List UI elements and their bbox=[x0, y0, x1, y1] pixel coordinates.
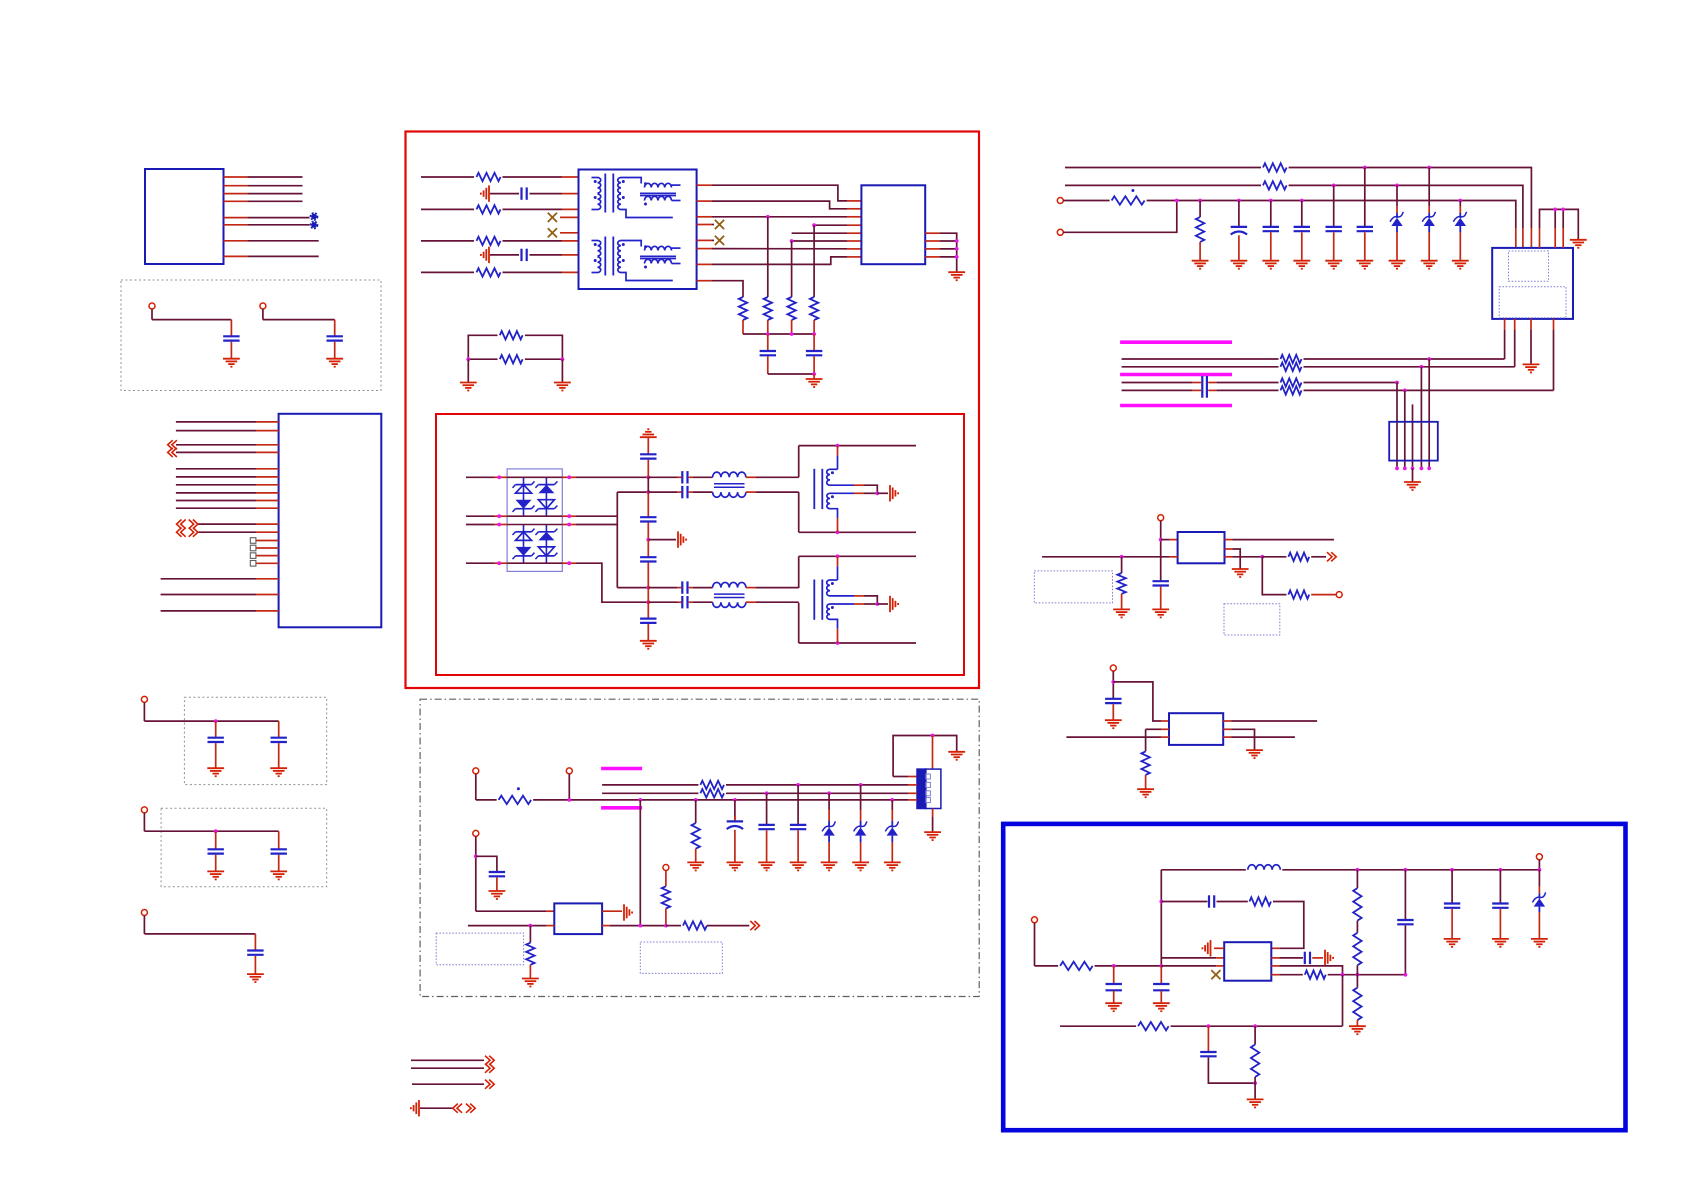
junction A bbox=[214, 719, 218, 723]
wire bbox=[648, 476, 677, 478]
ground bbox=[821, 862, 838, 870]
junction bbox=[1207, 1024, 1211, 1028]
wire bbox=[1412, 468, 1414, 482]
U1 pin 11 bbox=[256, 523, 279, 525]
pin stub bbox=[1170, 539, 1178, 541]
junction bbox=[812, 223, 816, 227]
choke winding bottom bbox=[713, 492, 746, 497]
pin stub bbox=[1459, 206, 1461, 213]
junction bbox=[567, 523, 571, 527]
lead bbox=[1428, 226, 1430, 232]
pin stub bbox=[562, 193, 579, 195]
pin stub bbox=[1161, 728, 1169, 730]
wire bbox=[1451, 870, 1453, 903]
U5 out 3 bbox=[1225, 556, 1233, 558]
wire drop bbox=[1238, 201, 1240, 227]
wire T1.3-U2.3 bbox=[712, 216, 847, 218]
wire bbox=[1145, 729, 1147, 751]
junction bbox=[497, 523, 501, 527]
wire P4 down bbox=[143, 813, 145, 831]
resistor bbox=[1251, 1045, 1259, 1078]
pin stub bbox=[1271, 947, 1279, 949]
placeholder box bbox=[1224, 604, 1280, 635]
ground bbox=[1153, 1003, 1170, 1011]
junction bbox=[1198, 199, 1202, 203]
regulator U6 bbox=[1169, 713, 1223, 745]
U1 pin 1 bbox=[256, 421, 279, 423]
ground bbox=[727, 862, 744, 870]
junction bbox=[1404, 868, 1408, 872]
U1 pin 9 bbox=[256, 500, 279, 502]
ground bbox=[1325, 261, 1342, 269]
wire into TVS bbox=[466, 476, 494, 478]
ground bbox=[1246, 750, 1263, 758]
no-connect X T1.5 bbox=[715, 236, 724, 245]
junction bbox=[664, 924, 668, 928]
junction bbox=[1404, 973, 1408, 977]
wire bbox=[1121, 594, 1123, 610]
wire bbox=[813, 356, 815, 374]
resistor bbox=[500, 355, 523, 363]
wire U2.4 bbox=[814, 224, 847, 226]
junction bbox=[766, 332, 770, 336]
wire bbox=[1499, 870, 1501, 903]
wire bbox=[1208, 1057, 1255, 1083]
pin P8 bbox=[473, 830, 479, 836]
wire bbox=[828, 842, 830, 862]
wire bbox=[503, 240, 563, 242]
CN1 pin 1 bbox=[224, 176, 248, 178]
wire bbox=[746, 476, 756, 478]
pin stub bbox=[562, 176, 579, 178]
wire drop bbox=[860, 785, 862, 810]
junction bbox=[1112, 964, 1116, 968]
wire bbox=[529, 926, 531, 943]
wire drop bbox=[767, 217, 769, 297]
input port arrow pin 4 bbox=[168, 448, 177, 457]
lead bbox=[860, 821, 862, 828]
ground bbox=[1152, 609, 1169, 617]
LAN section frame bbox=[406, 132, 980, 689]
U1 pin 17 bbox=[256, 578, 279, 580]
ground bbox=[522, 979, 539, 987]
wire bbox=[476, 856, 497, 871]
pin P7 bbox=[566, 768, 572, 774]
pin P10 bbox=[1057, 198, 1063, 204]
lead bbox=[1538, 894, 1540, 899]
pin P4 bbox=[141, 807, 147, 813]
capacitor bbox=[208, 738, 224, 742]
capacitor bbox=[1444, 904, 1460, 908]
pin stub bbox=[1216, 965, 1224, 967]
wire bbox=[1396, 232, 1398, 261]
wire pin P1 down bbox=[151, 309, 153, 320]
pin P3 bbox=[141, 696, 147, 702]
resistor bbox=[1288, 553, 1309, 561]
wire bbox=[647, 523, 649, 540]
wire bbox=[1112, 704, 1114, 720]
U1 pin 2 bbox=[256, 430, 279, 432]
junction bbox=[646, 490, 650, 494]
wire bbox=[1356, 965, 1358, 987]
junction bbox=[497, 475, 501, 479]
ground bbox=[1444, 939, 1461, 947]
junction bbox=[1159, 538, 1163, 542]
pin stub bbox=[1538, 886, 1540, 894]
CN2 pin 2 bbox=[908, 784, 917, 786]
wire to gnd bbox=[561, 359, 563, 382]
junction bbox=[646, 586, 650, 590]
U1 pin 12 bbox=[256, 531, 279, 533]
wire TVS internal row bbox=[507, 562, 562, 564]
wire TVS internal row bbox=[507, 524, 562, 526]
resistor bbox=[500, 331, 523, 339]
wire rowD bbox=[1063, 201, 1177, 233]
pin P11 bbox=[1057, 229, 1063, 235]
placeholder box bbox=[640, 942, 722, 973]
TVS array D1 diodes bbox=[513, 477, 558, 516]
wire drop bbox=[1270, 201, 1272, 227]
capacitor bbox=[790, 825, 806, 829]
bidir arrows bbox=[453, 1104, 475, 1113]
wire mid bbox=[467, 358, 498, 360]
wire termination bus bbox=[743, 333, 814, 335]
wire cap C1 lead bbox=[230, 320, 232, 337]
junction bbox=[1253, 1081, 1257, 1085]
power section frame bbox=[420, 699, 979, 996]
resistor bbox=[662, 886, 670, 908]
lead bbox=[1538, 907, 1540, 912]
wire bbox=[1160, 966, 1162, 984]
capacitor bbox=[271, 849, 287, 853]
wire bbox=[647, 563, 649, 588]
junction bbox=[890, 798, 894, 802]
junction bbox=[1395, 184, 1399, 188]
resistor rowC bbox=[1112, 196, 1145, 204]
wire bbox=[1301, 232, 1303, 260]
wire bbox=[1538, 912, 1540, 939]
junction bbox=[529, 924, 533, 928]
resistor lower bbox=[1138, 1022, 1169, 1030]
wire bbox=[756, 601, 799, 603]
bus bar bbox=[1120, 373, 1232, 377]
TVS diode bbox=[1422, 212, 1435, 226]
lead bbox=[828, 821, 830, 828]
wire U4.b1 bbox=[1504, 319, 1506, 359]
junction B bbox=[214, 829, 218, 833]
wire U1 pin 3 bbox=[176, 444, 256, 446]
wire bbox=[746, 587, 756, 589]
wire bbox=[1146, 728, 1161, 730]
CN2 pin 3 bbox=[908, 792, 917, 794]
wire bbox=[1199, 242, 1201, 261]
converter U7 bbox=[1224, 942, 1271, 981]
port arrows pin 12 bbox=[177, 528, 198, 537]
CN2 pin square bbox=[926, 774, 931, 779]
junction bbox=[1120, 555, 1124, 559]
no-connect square pin 14 bbox=[250, 545, 256, 551]
wire drop bbox=[891, 800, 893, 810]
wire rowA right bbox=[1289, 168, 1532, 229]
U4 subblock bbox=[1509, 251, 1549, 281]
wire U1 pin 8 bbox=[176, 492, 256, 494]
wire rowH bbox=[1122, 389, 1201, 391]
filter section frame bbox=[436, 414, 964, 675]
pin stub bbox=[546, 925, 554, 927]
wire bbox=[421, 240, 474, 242]
ground bbox=[1452, 261, 1469, 269]
capacitor bbox=[1209, 895, 1214, 907]
wire feedback a bbox=[1161, 901, 1207, 903]
pin stub bbox=[562, 240, 579, 242]
U1 pin 14 (no connect) bbox=[256, 547, 279, 549]
wire bbox=[1254, 1077, 1256, 1099]
wire cap to gnd bbox=[278, 855, 280, 872]
wire bbox=[1356, 1020, 1358, 1026]
junction bbox=[955, 247, 959, 251]
pin stub bbox=[677, 476, 681, 478]
arrow bbox=[1327, 552, 1336, 561]
ground bbox=[1105, 1003, 1122, 1011]
ground bbox=[207, 871, 224, 879]
polarity dot bbox=[517, 787, 520, 790]
pin stub bbox=[860, 810, 862, 821]
wire U7 vin2 bbox=[1161, 957, 1216, 959]
junction bbox=[646, 475, 650, 479]
wire T1.2-U2.2 bbox=[712, 201, 847, 209]
connector CN1 bbox=[145, 169, 224, 264]
capacitor bbox=[208, 849, 224, 853]
wire drop from row3 bbox=[639, 800, 641, 926]
resistor row1 bbox=[700, 781, 724, 789]
test point TP2 bbox=[310, 221, 317, 228]
wire cap to gnd bbox=[278, 743, 280, 768]
choke winding top bbox=[713, 472, 746, 477]
wire bbox=[1113, 966, 1115, 984]
wire bbox=[503, 176, 563, 178]
wire feedback b bbox=[1217, 901, 1248, 903]
wire bbox=[1538, 870, 1540, 886]
polarized capacitor bbox=[727, 821, 743, 829]
pin stub U2.5 bbox=[847, 232, 861, 234]
CN2 pin 1 wire bbox=[893, 776, 908, 778]
wire bbox=[568, 774, 570, 800]
capacitor bbox=[1200, 1052, 1216, 1056]
bus bar bbox=[601, 806, 642, 810]
junction bbox=[497, 561, 501, 565]
wire bbox=[647, 477, 649, 492]
wire bbox=[1356, 870, 1358, 888]
wire T1.6-U2.7 bbox=[712, 248, 847, 250]
junction bbox=[1403, 389, 1407, 393]
wire U1 pin 7 bbox=[176, 484, 256, 486]
resistor bbox=[1141, 751, 1149, 775]
wire bbox=[1428, 232, 1430, 261]
CN1 pin 6 bbox=[224, 224, 248, 226]
wire bbox=[421, 176, 474, 178]
ground bbox=[1531, 939, 1548, 947]
U7 out b bbox=[1271, 974, 1279, 976]
junction bbox=[1411, 467, 1415, 471]
U1 pin 4 bbox=[256, 451, 279, 453]
U1 pin 16 (no connect) bbox=[256, 562, 279, 564]
wire bbox=[1364, 232, 1366, 260]
wire bbox=[1231, 729, 1254, 750]
test point TP1 bbox=[310, 213, 317, 220]
wire bbox=[1356, 921, 1358, 933]
U7 out mid bbox=[1271, 965, 1279, 967]
termination resistor bbox=[810, 297, 818, 320]
wire bbox=[1311, 556, 1326, 558]
U1 pin 13 (no connect) bbox=[256, 540, 279, 542]
resistor bbox=[692, 823, 700, 849]
resistor out bbox=[1305, 971, 1326, 979]
IC U2 bbox=[861, 185, 925, 264]
pin stub U2.3 bbox=[847, 216, 861, 218]
ground bbox=[790, 862, 807, 870]
U1 pin 8 bbox=[256, 492, 279, 494]
junction bbox=[1237, 199, 1241, 203]
wire bbox=[1233, 556, 1263, 558]
wire bbox=[1279, 966, 1342, 975]
wire top loop right bbox=[525, 335, 563, 359]
wire P5 across bbox=[144, 933, 255, 935]
no-connect pin bbox=[560, 216, 579, 218]
capacitor bbox=[522, 187, 527, 199]
wire drop bbox=[695, 800, 697, 823]
wire U1 pin 17 bbox=[161, 578, 256, 580]
arrow out 1 bbox=[485, 1056, 494, 1065]
junction bbox=[812, 332, 816, 336]
ground bbox=[806, 379, 823, 387]
capacitor bbox=[1153, 984, 1169, 990]
inductor L1 bbox=[1248, 865, 1281, 870]
wire bbox=[932, 736, 934, 770]
wire U1 pin 5 bbox=[176, 468, 256, 470]
TVS diode bbox=[1453, 212, 1466, 226]
wire U2 right 1 bbox=[940, 233, 957, 272]
junction bbox=[812, 372, 816, 376]
wire rowC a bbox=[1063, 200, 1109, 202]
junction bbox=[561, 357, 565, 361]
wire bbox=[693, 491, 713, 493]
lead bbox=[1459, 213, 1461, 218]
wire CN1 pin 3 bbox=[247, 193, 302, 195]
ground G2 bbox=[326, 359, 343, 367]
regulator U3 bbox=[554, 903, 602, 934]
wire bbox=[476, 799, 497, 801]
wire bbox=[813, 334, 815, 351]
no-connect X bbox=[1211, 970, 1220, 979]
output arrow bbox=[750, 921, 759, 930]
resistor bbox=[499, 796, 531, 804]
U2 right pin bbox=[925, 240, 940, 242]
capacitor bbox=[522, 249, 527, 261]
junction bbox=[1159, 900, 1163, 904]
wire CN2 gnd bbox=[932, 817, 934, 832]
TVS array D2 diodes bbox=[513, 525, 558, 564]
CN2 gnd stub bbox=[932, 809, 934, 818]
U2 right pin bbox=[925, 248, 940, 250]
wire bbox=[496, 877, 498, 891]
capacitor bbox=[806, 351, 822, 355]
wire bbox=[756, 476, 799, 478]
wire bbox=[1207, 1026, 1209, 1051]
resistor bbox=[1117, 573, 1125, 594]
resistor rowF bbox=[1281, 363, 1302, 371]
resistor rowE bbox=[1281, 355, 1302, 363]
no-connect square pin 16 bbox=[250, 561, 256, 567]
wire P3 across bbox=[144, 720, 278, 722]
wire CN1 pin 1 bbox=[247, 176, 302, 178]
wire U4.b2 bbox=[1514, 319, 1516, 367]
wire cap lead bbox=[278, 831, 280, 849]
U6 out 3 bbox=[1223, 736, 1231, 738]
no-connect X T1.4 bbox=[715, 220, 724, 229]
capacitor bbox=[1326, 227, 1342, 231]
U4 subblock bbox=[1499, 287, 1566, 318]
ground bbox=[1232, 569, 1249, 577]
wire bbox=[1231, 720, 1317, 722]
wire bbox=[1113, 991, 1115, 1004]
ground bbox=[554, 383, 571, 391]
wire rowF right bbox=[1304, 366, 1515, 368]
wire out 3 bbox=[412, 1083, 484, 1085]
U1 pin 10 bbox=[256, 507, 279, 509]
junction bbox=[1427, 166, 1431, 170]
ground bbox=[758, 862, 775, 870]
resistor row2 bbox=[700, 789, 724, 797]
wire in bbox=[1042, 556, 1170, 558]
junction bbox=[1427, 357, 1431, 361]
junction bbox=[1420, 365, 1424, 369]
U3 out pin 2 bbox=[602, 925, 610, 927]
pin stub U2.4 bbox=[847, 224, 861, 226]
wire bbox=[647, 460, 649, 478]
wire P5 down bbox=[143, 916, 145, 934]
pin P16 bbox=[1032, 917, 1038, 923]
polarity dot bbox=[1131, 189, 1134, 192]
wire rowG right bbox=[1304, 382, 1398, 384]
pin P9 bbox=[663, 865, 669, 871]
capacitor C bbox=[247, 951, 263, 955]
resistor bbox=[477, 237, 501, 245]
junction bbox=[1395, 467, 1399, 471]
junction bbox=[1458, 199, 1462, 203]
U1 pin 7 bbox=[256, 484, 279, 486]
wire rowG bbox=[1122, 382, 1201, 384]
resistor bbox=[477, 173, 501, 181]
wire in low bbox=[1066, 736, 1161, 738]
power flag bbox=[640, 429, 657, 437]
CN1 pin 4 bbox=[224, 200, 248, 202]
wire bbox=[1233, 549, 1241, 569]
wire drop bbox=[828, 793, 830, 810]
wire U1 pin 6 bbox=[176, 476, 256, 478]
pin stub U2.8 bbox=[847, 256, 861, 258]
wire U1 pin 1 bbox=[176, 421, 256, 423]
U5 out 1 bbox=[1225, 539, 1233, 541]
wire U2 right bbox=[940, 256, 957, 258]
wire drop bbox=[1396, 383, 1398, 469]
connector CN3 bbox=[1389, 422, 1438, 461]
wire drop bbox=[797, 785, 799, 825]
capacitor bbox=[640, 557, 656, 561]
pin P2 bbox=[260, 303, 266, 309]
TVS diode bbox=[854, 821, 867, 835]
ground bbox=[852, 862, 869, 870]
wire bbox=[707, 925, 749, 927]
